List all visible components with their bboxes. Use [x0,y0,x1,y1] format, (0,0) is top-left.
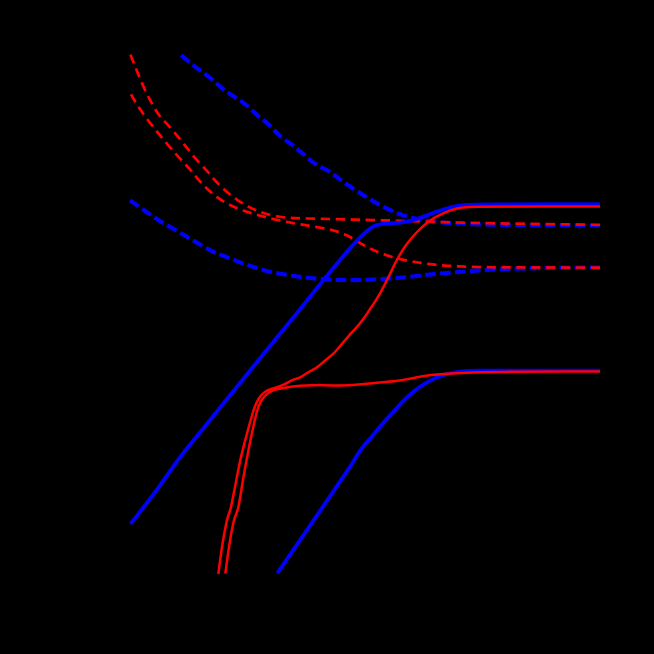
blue dashed diabatic curve 2 (lower) [130,200,600,280]
blue solid adiabatic curve (upper) [131,204,601,524]
blue solid adiabatic curve (lower) [277,371,600,574]
red dashed diabatic curve 1 (upper) [130,55,600,225]
red solid adiabatic curve (lower) [225,372,600,574]
red solid adiabatic curve (upper) [218,207,600,575]
red dashed diabatic curve 2 (lower) [131,94,600,267]
blue dashed diabatic curve 1 (upper) [181,55,600,225]
